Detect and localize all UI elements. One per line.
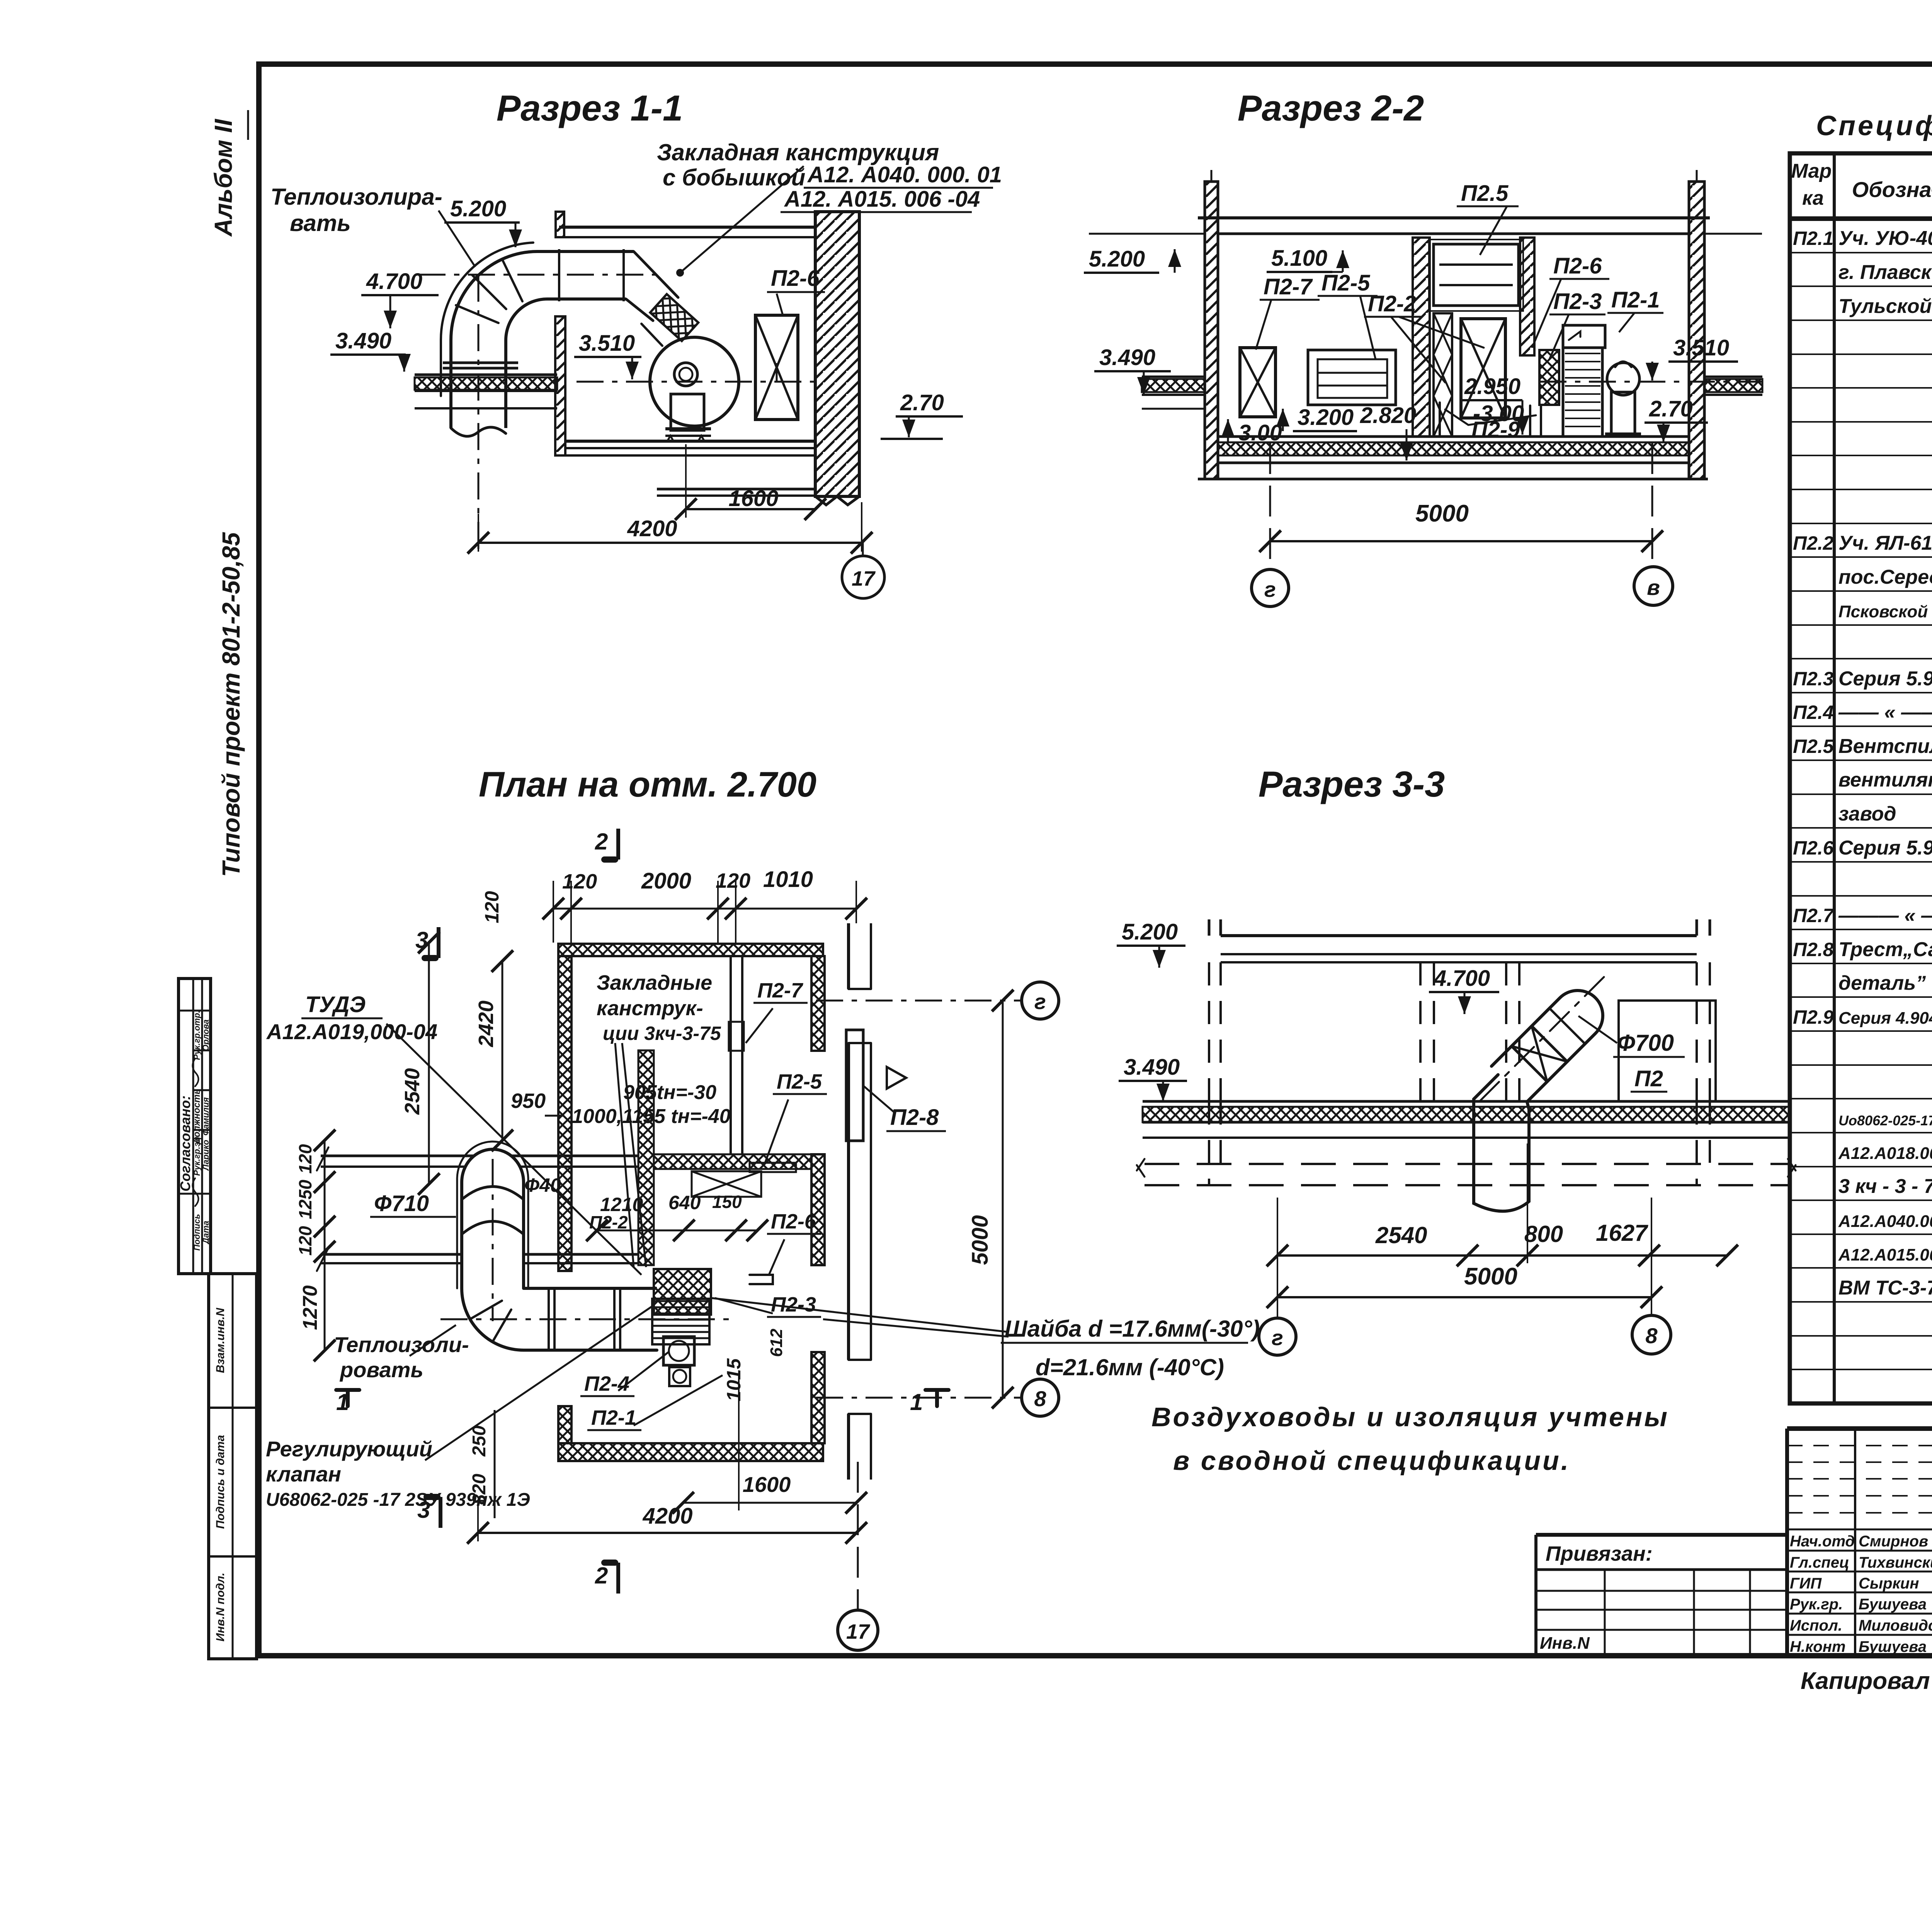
svg-text:2420: 2420 [474,1001,498,1047]
underground channel dashed [1145,1163,1788,1165]
svg-text:в: в [1647,575,1660,600]
svg-text:Серия 5.904.4: Серия 5.904.4 [1838,837,1932,859]
duct centerlines plan [492,1159,494,1321]
svg-text:5000: 5000 [1464,1263,1517,1290]
П2-5 louvre block lower [1308,350,1396,405]
svg-text:Закладная канструкция: Закладная канструкция [657,139,939,165]
leader to Шайба note [711,1298,1009,1332]
roof slab [1198,216,1710,219]
grid bubble 17 [862,543,864,556]
svg-text:150: 150 [712,1192,742,1212]
title block (нижний штамп) [1787,1426,1932,1431]
svg-text:Разрез 2-2: Разрез 2-2 [1238,88,1424,128]
vertical duct [449,340,452,428]
svg-text:1000,1155 tн=-40: 1000,1155 tн=-40 [572,1105,731,1128]
svg-text:г: г [1034,989,1046,1014]
svg-text:Рук.гр.эл.: Рук.гр.эл. [192,1134,202,1176]
svg-text:Разрез 1-1: Разрез 1-1 [497,88,683,128]
svg-text:3.510: 3.510 [1673,335,1729,360]
svg-text:деталь”: деталь” [1838,972,1926,994]
svg-text:Тихвинский: Тихвинский [1859,1554,1932,1571]
leader to embedded part [680,166,804,273]
signature scribble [192,1058,198,1086]
lattice stand column [1434,313,1452,437]
svg-text:П2.1: П2.1 [1793,228,1833,249]
svg-text:П2.5: П2.5 [1461,181,1509,206]
svg-text:Шайба d =17.6мм(-30°): Шайба d =17.6мм(-30°) [1005,1316,1260,1342]
svg-text:П2-8: П2-8 [890,1105,939,1130]
signature scribble [192,1178,198,1206]
right wall [815,212,859,496]
П2-8 louvre on wall [846,1030,863,1141]
svg-text:Псковской обл.: Псковской обл. [1838,602,1932,621]
Привязан block [1536,1533,1787,1537]
outside floor slabs [1142,379,1205,392]
svg-text:1010: 1010 [763,867,813,892]
svg-text:П2-1: П2-1 [1611,287,1660,313]
svg-text:Взам.инв.N: Взам.инв.N [214,1307,227,1373]
svg-text:Подпись и дата: Подпись и дата [214,1435,227,1529]
svg-text:П2-5: П2-5 [777,1070,822,1093]
svg-text:П2.4: П2.4 [1793,702,1833,723]
svg-text:П2-6: П2-6 [771,1210,816,1233]
svg-text:ГИП: ГИП [1790,1575,1822,1592]
svg-text:4.700: 4.700 [1434,966,1490,991]
svg-text:П2.2: П2.2 [1793,532,1834,554]
duct elbow bend [451,251,537,340]
svg-text:1: 1 [910,1389,923,1415]
section mark 2 (top) [616,829,620,860]
elbow gore 2 [472,275,506,309]
svg-text:ТУДЭ: ТУДЭ [305,992,366,1017]
svg-text:——— « ———: ——— « ——— [1838,904,1932,927]
svg-text:120: 120 [481,891,503,923]
svg-text:Спецификация вентустановки П: Спецификация вентустановки П-2 [1816,110,1932,141]
interior wall [555,316,565,455]
Согласовано stamp table [179,979,211,1274]
svg-text:Смирнов: Смирнов [1859,1533,1928,1550]
svg-text:Тульской обл.: Тульской обл. [1838,295,1932,318]
svg-text:8: 8 [1645,1323,1658,1348]
svg-text:П2-5: П2-5 [1321,270,1370,296]
svg-text:3 кч - 3 - 75: 3 кч - 3 - 75 [1838,1175,1932,1198]
svg-text:Ф700: Ф700 [1617,1030,1674,1056]
flexible insert (crosshatch) [1539,350,1559,405]
axis 8 [816,1397,1023,1399]
svg-text:ВМ ТС-3-76: ВМ ТС-3-76 [1838,1277,1932,1299]
svg-text:Бушуева: Бушуева [1859,1638,1927,1655]
svg-text:1627: 1627 [1596,1220,1648,1246]
svg-text:4.700: 4.700 [366,269,422,294]
svg-text:П2.3: П2.3 [1793,668,1834,690]
svg-text:3.490: 3.490 [1124,1055,1180,1080]
sheet outer frame [259,64,1932,1656]
left strip: Взам.инв.N / Подпись и дата / Инв.N подл. [209,1274,257,1659]
svg-text:Обозначение: Обозначение [1852,177,1932,202]
central partition wall [1413,238,1430,437]
svg-text:250: 250 [469,1425,490,1457]
left wall [1205,182,1218,479]
svg-text:А12.А018.000-04: А12.А018.000-04 [1838,1144,1932,1163]
svg-text:—— « ——: —— « —— [1838,701,1932,724]
fan П2-1 [650,337,739,426]
svg-text:2.70: 2.70 [900,390,944,415]
section mark 3 (bottom) [439,1497,442,1528]
svg-text:2540: 2540 [401,1068,424,1115]
svg-text:в сводной спецификации.: в сводной спецификации. [1173,1446,1570,1476]
svg-text:612: 612 [767,1329,786,1357]
floor slab [1143,1100,1790,1103]
roof beam [1221,934,1697,937]
svg-text:2: 2 [595,829,608,855]
right wall [1689,182,1704,479]
svg-text:950: 950 [511,1089,546,1113]
П2 unit box [1619,1001,1716,1101]
svg-text:1250: 1250 [295,1179,315,1219]
svg-text:Инв.N подл.: Инв.N подл. [214,1573,227,1641]
svg-text:Фамилия: Фамилия [201,1097,211,1135]
svg-text:Орлова: Орлова [201,1019,211,1051]
svg-text:П2-4: П2-4 [584,1372,629,1395]
svg-text:1015: 1015 [723,1358,745,1401]
svg-text:1270: 1270 [299,1285,321,1330]
fan in plan [663,1337,694,1365]
section mark 3 (top) [437,927,440,958]
duct white underlay [462,1149,524,1288]
svg-text:5.200: 5.200 [1089,246,1145,272]
svg-text:Альбом II: Альбом II [209,119,237,237]
svg-text:Согласовано:: Согласовано: [177,1096,193,1192]
columns dashed [1208,962,1210,1101]
svg-text:Испол.: Испол. [1790,1617,1842,1634]
big X door П2-2 [1461,319,1505,418]
svg-text:3.00: 3.00 [1238,420,1282,445]
svg-text:Гл.спец: Гл.спец [1790,1554,1849,1571]
svg-text:120: 120 [562,870,597,893]
svg-text:А12.А019,000-04: А12.А019,000-04 [266,1019,437,1044]
svg-text:2540: 2540 [1375,1222,1427,1248]
svg-text:Типовой проект 801-2-50,85: Типовой проект 801-2-50,85 [217,532,245,877]
svg-text:П2.9: П2.9 [1793,1006,1834,1028]
svg-text:А12.А015.006-04: А12.А015.006-04 [1838,1245,1932,1264]
svg-text:120: 120 [716,869,750,892]
grid bubble 17 plan [857,1462,859,1610]
svg-text:клапан: клапан [266,1462,341,1486]
svg-text:Нач.отд: Нач.отд [1790,1533,1855,1550]
svg-text:завод: завод [1838,803,1896,825]
svg-text:г: г [1272,1325,1283,1350]
svg-text:Бушуева: Бушуева [1859,1596,1927,1613]
svg-text:П2.6: П2.6 [1793,837,1834,859]
svg-text:Серия 4.904-25: Серия 4.904-25 [1838,1009,1932,1028]
svg-text:17: 17 [852,567,876,590]
svg-text:2000: 2000 [641,868,691,894]
svg-text:Мар: Мар [1791,160,1832,182]
svg-text:П2.7: П2.7 [1793,905,1835,926]
diagonal duct Ф700: elbow at floor [1474,1075,1498,1122]
svg-text:П2-3: П2-3 [771,1293,816,1316]
svg-text:Капировал Курвина: Капировал Курвина [1801,1668,1932,1694]
svg-text:Серия 5.904-5: Серия 5.904-5 [1838,668,1932,690]
svg-text:Трест„Сантех-: Трест„Сантех- [1838,938,1932,961]
insulation outline [457,1142,528,1288]
svg-text:г: г [1264,577,1276,601]
svg-text:5.200: 5.200 [450,196,506,221]
svg-text:П2.8: П2.8 [1793,939,1834,960]
svg-text:П2-6: П2-6 [771,266,820,291]
svg-text:П2-3: П2-3 [1553,289,1602,314]
svg-text:Н.конт: Н.конт [1790,1638,1845,1655]
svg-text:с бобышкой: с бобышкой [663,165,805,190]
svg-text:3.200: 3.200 [1298,405,1354,430]
svg-text:Теплоизолира-: Теплоизолира- [270,184,442,210]
svg-text:2.950: 2.950 [1464,374,1520,399]
svg-text:Миловидов: Миловидов [1859,1617,1932,1634]
svg-text:П2-7: П2-7 [757,979,804,1002]
svg-text:Uо8062-025-17 2SУ939нж: Uо8062-025-17 2SУ939нж [1838,1113,1932,1128]
section mark 2 (bottom) [616,1563,620,1594]
svg-text:Сыркин: Сыркин [1859,1575,1919,1592]
svg-text:3.490: 3.490 [1099,345,1155,370]
svg-text:5000: 5000 [968,1215,993,1265]
inlet transition [634,251,678,297]
elbow turning right (plan) [462,1288,657,1350]
svg-text:2.820: 2.820 [1360,403,1416,428]
svg-text:Подпись: Подпись [192,1214,202,1250]
svg-text:5.200: 5.200 [1122,919,1178,945]
svg-text:U68062-025 -17 2SУ 939нж 1Э: U68062-025 -17 2SУ 939нж 1Э [266,1490,530,1510]
section mark 1 (left) [347,1383,348,1410]
svg-text:-3.00: -3.00 [1473,401,1524,426]
svg-text:П2-2: П2-2 [1368,291,1417,316]
top louvre П2.5 [1434,244,1519,306]
svg-text:17: 17 [846,1620,871,1643]
svg-text:800: 800 [1524,1221,1563,1247]
svg-text:План на отм. 2.700: План на отм. 2.700 [479,765,816,804]
svg-text:2: 2 [595,1563,608,1589]
svg-text:А12. А040. 000. 01: А12. А040. 000. 01 [807,162,1002,187]
svg-text:4200: 4200 [627,516,677,541]
svg-text:ка: ка [1802,187,1824,209]
svg-text:4200: 4200 [642,1504,692,1529]
svg-text:ции 3кч-3-75: ции 3кч-3-75 [603,1023,721,1044]
chamber floor [565,440,815,443]
svg-text:5.100: 5.100 [1271,246,1327,271]
svg-text:пос.Середка: пос.Середка [1838,566,1932,588]
svg-text:канструк-: канструк- [597,997,703,1020]
svg-text:2.70: 2.70 [1649,396,1693,421]
svg-text:Рук.гр.отр.: Рук.гр.отр. [192,1011,202,1060]
chamber floor [1218,435,1689,438]
svg-text:1600: 1600 [743,1472,791,1497]
svg-text:Рук.гр.: Рук.гр. [1790,1596,1843,1613]
svg-text:Уч. ЯЛ-61/ч: Уч. ЯЛ-61/ч [1838,532,1932,554]
fan unit П2-1 with motor [1563,325,1605,348]
svg-text:П2.5: П2.5 [1793,736,1834,757]
svg-text:5000: 5000 [1415,500,1469,527]
svg-text:905tн=-30: 905tн=-30 [623,1081,716,1104]
svg-text:Закладные: Закладные [597,971,712,994]
corridor walls left [321,1155,638,1157]
ceiling slab [559,226,814,229]
duct riser cap (plan) [462,1149,524,1288]
svg-text:Ларико: Ларико [201,1140,211,1171]
svg-text:А12. А015. 006 -04: А12. А015. 006 -04 [784,187,980,212]
svg-text:П2: П2 [1634,1066,1663,1091]
axis Г [816,1000,1023,1002]
svg-text:Разрез 3-3: Разрез 3-3 [1259,764,1445,804]
elbow gores [470,1301,511,1342]
supports П2-9 [1425,403,1445,437]
svg-text:Вентспилский: Вентспилский [1838,735,1932,758]
svg-text:П2-6: П2-6 [1553,253,1602,279]
svg-text:Привязан:: Привязан: [1546,1542,1653,1565]
elbow gore 3 [456,305,498,323]
svg-text:d=21.6мм (-40°C): d=21.6мм (-40°C) [1036,1354,1224,1380]
svg-text:3.510: 3.510 [579,331,635,356]
svg-text:1600: 1600 [728,486,778,511]
svg-text:Инв.N: Инв.N [1540,1634,1590,1653]
inner partitions plan [654,1154,811,1169]
flexible insert crosshatch block [654,1269,711,1315]
chamber walls plan [558,944,823,956]
svg-text:Теплоизоли-: Теплоизоли- [334,1332,469,1357]
svg-text:120: 120 [295,1226,315,1256]
svg-text:Регулирующий: Регулирующий [266,1437,432,1461]
svg-text:П2-7: П2-7 [1264,274,1313,299]
axis bubbles Г and 8 [1259,1318,1296,1355]
svg-text:3.490: 3.490 [335,328,391,353]
svg-text:А12.А040.000-01: А12.А040.000-01 [1838,1212,1932,1231]
horizontal duct run [537,250,634,253]
svg-text:ровать: ровать [339,1357,423,1382]
svg-text:г. Плавск: г. Плавск [1838,261,1932,284]
svg-text:8: 8 [1034,1386,1046,1411]
insulation outline [441,243,533,396]
svg-text:П2-1: П2-1 [591,1406,636,1429]
svg-text:Уч. УЮ-400/ч: Уч. УЮ-400/ч [1838,227,1932,250]
specification table grid [1790,153,1932,1403]
svg-text:вать: вать [290,210,351,236]
building wall right [847,923,850,989]
floor slab left [415,374,557,376]
П2-7 door (X rect) [1240,348,1276,417]
diagonal duct Ф700: buried vertical part [1474,1122,1529,1211]
elbow gore 1 [502,260,522,301]
svg-text:120: 120 [295,1144,315,1174]
svg-text:вентиляторный: вентиляторный [1838,769,1932,791]
svg-text:Воздуховоды и изоляция учте: Воздуховоды и изоляция учтены [1151,1402,1669,1432]
heater striped block [652,1299,709,1344]
svg-text:Ф710: Ф710 [374,1191,429,1216]
diagonal duct Ф700: inclined barrel + rounded cap [1492,990,1603,1102]
svg-text:Дата: Дата [201,1221,211,1245]
